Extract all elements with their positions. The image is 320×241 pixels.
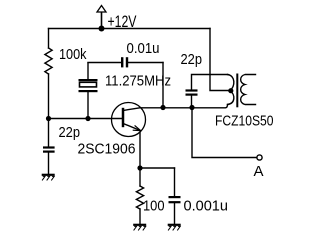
svg-text:0.01u: 0.01u — [127, 40, 160, 57]
svg-text:100k: 100k — [59, 46, 87, 63]
svg-text:+12V: +12V — [108, 13, 137, 31]
svg-text:11.275MHz: 11.275MHz — [105, 73, 171, 90]
svg-text:22p: 22p — [181, 51, 203, 68]
svg-text:100: 100 — [143, 198, 165, 215]
svg-text:22p: 22p — [59, 124, 81, 141]
svg-text:0.001u: 0.001u — [184, 198, 229, 215]
svg-text:2SC1906: 2SC1906 — [78, 141, 136, 158]
svg-text:FCZ10S50: FCZ10S50 — [215, 112, 274, 129]
svg-text:A: A — [254, 163, 264, 180]
